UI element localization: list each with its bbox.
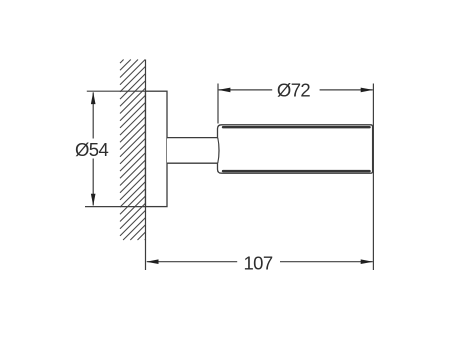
- dimension Ø54 down arrow: [91, 194, 96, 206]
- dimension 107 line right segment: [280, 261, 373, 263]
- dimension Ø72 text: [277, 79, 310, 100]
- wall hatching: [120, 60, 146, 241]
- dimension Ø54 bottom extension line: [85, 206, 146, 208]
- cylinder bottom shadow line: [223, 170, 370, 172]
- holder cylinder body: [218, 125, 373, 173]
- wall surface line: [145, 60, 147, 271]
- dimension 107 left arrow: [146, 259, 158, 264]
- svg-text:Ø54: Ø54: [75, 139, 108, 160]
- stem fillet arc: [218, 138, 219, 163]
- cylinder top shadow line: [223, 126, 370, 128]
- dimension 107 line left segment: [147, 261, 237, 263]
- dimension Ø72 / 107 right extension line: [372, 84, 374, 271]
- dimension 107 right arrow: [361, 259, 373, 264]
- svg-text:107: 107: [243, 252, 272, 273]
- dimension Ø72 line right segment: [320, 89, 373, 91]
- dimension Ø72 left extension line: [217, 84, 219, 124]
- dimension Ø54 up arrow: [91, 92, 96, 104]
- dimension 107 text: [243, 252, 272, 273]
- dimension Ø54 text: [75, 139, 108, 160]
- dimension Ø72 left arrow: [218, 88, 230, 93]
- svg-text:Ø72: Ø72: [277, 79, 310, 100]
- dimension Ø54 line upper segment: [92, 92, 94, 138]
- dimension Ø72 line left segment: [219, 89, 273, 91]
- dimension Ø54 line lower segment: [92, 159, 94, 206]
- dimension Ø54 top extension line: [87, 90, 146, 92]
- stem (mounting post): [167, 138, 218, 164]
- dimension Ø72 right arrow: [361, 88, 373, 93]
- wall plate (flange): [146, 91, 168, 206]
